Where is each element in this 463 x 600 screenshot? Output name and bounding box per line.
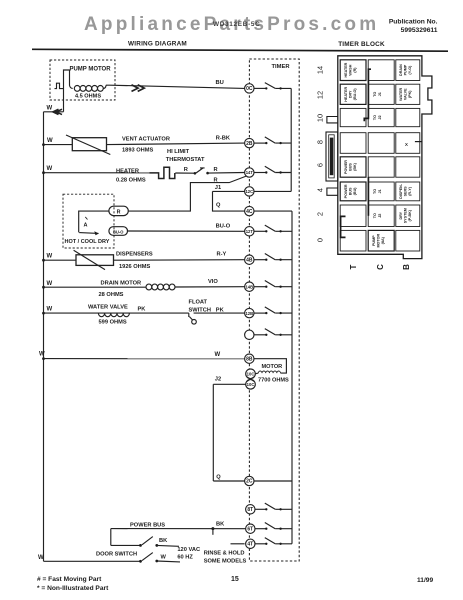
cell 12C to J1 — [368, 84, 394, 104]
cell 14T heater wash — [340, 60, 366, 81]
terminal 4C — [245, 206, 254, 215]
contact R (pill) — [109, 206, 128, 215]
svg-text:W: W — [47, 106, 53, 112]
svg-text:A: A — [84, 223, 88, 229]
switch at 8T — [254, 503, 292, 510]
wire R-BK to 2B — [107, 143, 245, 145]
wire: bus to heater — [44, 172, 150, 174]
svg-text:8: 8 — [316, 140, 325, 144]
svg-text:HEATER: HEATER — [344, 62, 348, 77]
svg-text:4C: 4C — [246, 209, 253, 215]
cell 0B empty — [396, 230, 420, 251]
svg-text:W: W — [47, 254, 53, 260]
wire BU-O to 12T — [128, 230, 245, 232]
svg-text:4T: 4T — [247, 542, 253, 548]
svg-text:4.5 OHMS: 4.5 OHMS — [75, 93, 101, 99]
terminal 0C — [245, 84, 254, 93]
housing tab row 4 — [327, 188, 338, 195]
wire: 8B to timer motor loop — [254, 359, 286, 373]
svg-text:(BU-O): (BU-O) — [353, 88, 357, 101]
wire BU: pump motor to timer 0C — [110, 85, 245, 88]
door switch W right contact + wire — [155, 560, 158, 563]
svg-text:HOT / COOL DRY: HOT / COOL DRY — [65, 239, 110, 245]
svg-text:120 VAC: 120 VAC — [177, 547, 200, 553]
svg-text:W: W — [215, 352, 221, 358]
svg-text:TO: TO — [373, 213, 377, 218]
drain motor coil — [146, 284, 152, 290]
svg-text:BK: BK — [216, 522, 225, 528]
door switch BK blade — [142, 537, 153, 545]
door switch W blade — [142, 553, 153, 561]
wire: power bus drop to door switch — [110, 529, 112, 546]
svg-text:BU-O: BU-O — [216, 223, 231, 229]
wire: W main bus (left vertical) — [43, 112, 45, 562]
svg-text:VENT ACTUATOR: VENT ACTUATOR — [122, 136, 170, 142]
svg-text:HEATER: HEATER — [116, 168, 139, 174]
wire: J1 drop to 4C — [213, 191, 245, 211]
cell 10T empty — [340, 108, 366, 126]
terminal 14B — [245, 282, 254, 291]
svg-text:2C: 2C — [246, 479, 253, 485]
terminal 12B — [245, 308, 254, 317]
junction dot drain row — [42, 286, 45, 289]
wire: BK line to door switch — [111, 544, 141, 546]
terminal 6T — [246, 524, 255, 533]
wire: pump common vertical with top hook — [64, 70, 70, 112]
terminal 4B — [245, 255, 254, 264]
svg-text:W: W — [38, 555, 44, 561]
cell 6C empty — [368, 157, 394, 177]
svg-text:DRAIN MOTOR: DRAIN MOTOR — [101, 280, 142, 286]
svg-text:(R): (R) — [353, 67, 357, 73]
svg-text:DRY: DRY — [399, 211, 403, 219]
svg-text:J1: J1 — [378, 92, 382, 96]
vent actuator diagonal — [66, 135, 110, 155]
cell 2B dry system — [396, 205, 420, 227]
terminal 2B — [245, 138, 254, 147]
wire: bus to dispenser — [44, 259, 77, 261]
svg-text:DISPEN-: DISPEN- — [399, 183, 403, 199]
svg-text:J2: J2 — [215, 376, 221, 382]
cell 2C to J2 — [368, 205, 394, 227]
svg-text:15: 15 — [231, 576, 239, 583]
float switch break tick — [188, 313, 190, 317]
svg-text:2: 2 — [316, 212, 325, 216]
contact BU-O (pill) — [109, 227, 128, 236]
svg-text:HEATER: HEATER — [344, 87, 348, 102]
terminal 4T — [246, 539, 255, 548]
svg-text:MOTOR: MOTOR — [377, 234, 381, 248]
svg-text:PUMP: PUMP — [372, 235, 376, 246]
svg-text:BU: BU — [216, 80, 224, 86]
pump coil exit wire — [103, 85, 110, 88]
cell 10B empty — [396, 108, 420, 126]
svg-text:WIRING DIAGRAM: WIRING DIAGRAM — [128, 41, 187, 48]
svg-text:W: W — [47, 138, 53, 144]
svg-text:VIO: VIO — [208, 279, 218, 285]
svg-text:1926 OHMS: 1926 OHMS — [119, 264, 151, 270]
svg-text:WATER VALVE: WATER VALVE — [88, 304, 128, 310]
cell 0C pump motor — [368, 230, 394, 251]
heater resistor zigzag — [149, 167, 175, 178]
terminal unlabeled — [245, 330, 254, 339]
door switch BK right contact + wire — [155, 544, 158, 547]
hot/cool dry dashed box — [63, 194, 114, 248]
svg-text:TO: TO — [373, 92, 377, 97]
svg-text:J2: J2 — [378, 115, 382, 119]
terminal 14T — [245, 168, 254, 177]
dispenser diagonal — [74, 250, 105, 269]
cell 2T empty — [340, 205, 366, 227]
cell 6T power bus bk — [340, 157, 366, 177]
door switch W contact — [139, 560, 142, 563]
fast moving symbol on bus corner — [53, 109, 62, 114]
stub 8B to housing edge — [415, 141, 422, 143]
terminal 10C upper — [246, 369, 256, 379]
svg-text:0.28 OHMS: 0.28 OHMS — [116, 177, 146, 183]
svg-text:WASH: WASH — [349, 64, 353, 75]
cell 4C to J1 — [368, 182, 394, 201]
svg-text:TO: TO — [373, 189, 377, 194]
thermal protector step (pump motor) — [55, 83, 64, 88]
wire: heater to thermostat — [175, 172, 194, 174]
svg-text:C: C — [376, 264, 385, 270]
cell 14B drain pump — [396, 60, 420, 81]
svg-text:DISPENSERS: DISPENSERS — [116, 251, 153, 257]
svg-text:10C: 10C — [247, 382, 255, 387]
cell 12T heater dry — [340, 84, 366, 104]
svg-text:(Y-G): (Y-G) — [408, 65, 412, 75]
wire: coil to 10C — [255, 372, 258, 375]
wire: thermostat to 14T — [208, 172, 245, 175]
svg-text:4: 4 — [316, 188, 325, 192]
svg-text:12C: 12C — [245, 189, 253, 194]
svg-text:W: W — [47, 166, 53, 172]
wire R-Y to 4B — [114, 259, 245, 262]
cell 14C empty — [368, 60, 394, 81]
pump motor dashed box — [50, 60, 115, 100]
svg-text:POWER: POWER — [344, 160, 348, 174]
jumper bar rows 4-2 (C column) — [367, 177, 369, 216]
wire: bus to vent actuator — [44, 144, 73, 146]
svg-text:Q: Q — [216, 475, 221, 481]
cell 0T empty — [340, 230, 366, 251]
junction dot vent row — [42, 143, 45, 146]
wire: bus to 8B — [44, 358, 245, 360]
svg-text:11/99: 11/99 — [417, 577, 433, 584]
terminal 12T — [245, 227, 254, 236]
wire PK to 12B — [194, 312, 245, 314]
cell 4B dispensers — [396, 182, 420, 201]
pump motor winding coil — [70, 86, 73, 89]
svg-text:VALVE: VALVE — [404, 88, 408, 100]
wire: 2C to right bus — [254, 480, 292, 482]
switch at 4T — [254, 538, 292, 545]
timer dashed enclosure — [249, 59, 299, 561]
wire: lower 10C to J2 — [213, 383, 246, 385]
svg-text:28 OHMS: 28 OHMS — [99, 292, 124, 298]
header rule — [32, 49, 448, 51]
svg-text:SYSTEM: SYSTEM — [404, 208, 408, 223]
wire: 12C to J1 — [213, 190, 245, 192]
dispenser resistor box — [76, 255, 114, 266]
svg-text:14B: 14B — [245, 284, 253, 289]
junction dot water valve row — [42, 312, 45, 315]
svg-text:WD312EB-5C: WD312EB-5C — [213, 21, 261, 28]
junction X between 10C terminals — [247, 377, 254, 382]
wire: bus to drain coil — [44, 286, 147, 288]
terminal 12C — [245, 187, 254, 196]
svg-text:RINSE & HOLD: RINSE & HOLD — [204, 550, 245, 556]
switch at unlabeled terminal — [254, 329, 292, 336]
svg-text:0: 0 — [316, 238, 325, 242]
svg-text:J2: J2 — [378, 214, 382, 218]
timer internal bus 2 — [291, 211, 293, 544]
switch at 12B — [254, 307, 292, 314]
cell 8T empty — [340, 133, 366, 154]
hi-limit thermostat contacts — [194, 172, 197, 175]
terminal 10C lower — [246, 380, 256, 390]
svg-text:PUMP: PUMP — [404, 64, 408, 75]
svg-text:6: 6 — [316, 163, 325, 167]
cell 8B JC mark — [396, 133, 420, 154]
stub below power bus junction — [212, 529, 214, 535]
svg-text:10: 10 — [316, 114, 325, 122]
svg-text:R: R — [214, 177, 218, 183]
svg-text:(R-Y): (R-Y) — [408, 186, 412, 196]
switch at 4B — [254, 254, 292, 261]
svg-text:BU-O: BU-O — [113, 230, 124, 235]
junction dot W row — [42, 357, 45, 360]
svg-text:(8A): (8A) — [381, 236, 385, 244]
svg-text:(PK): (PK) — [408, 90, 412, 98]
svg-text:0C: 0C — [246, 86, 253, 92]
svg-text:# = Fast Moving Part: # = Fast Moving Part — [37, 576, 102, 583]
wire: 14T branch to hot/cool selector R — [128, 176, 247, 211]
svg-text:R-BK: R-BK — [216, 136, 231, 142]
svg-text:PUMP MOTOR: PUMP MOTOR — [69, 67, 111, 73]
svg-text:DOOR SWITCH: DOOR SWITCH — [96, 551, 137, 557]
svg-text:* = Non-Illustrated Part: * = Non-Illustrated Part — [37, 585, 109, 592]
switch at 2B — [254, 137, 291, 144]
svg-text:R: R — [117, 210, 121, 216]
svg-text:PK: PK — [216, 308, 225, 314]
terminal 8T — [246, 505, 255, 514]
svg-text:X: X — [405, 142, 408, 147]
svg-text:5995329611: 5995329611 — [401, 27, 438, 34]
svg-text:W: W — [47, 307, 53, 313]
svg-text:BK: BK — [159, 538, 168, 544]
cell 4T power bus bu — [340, 182, 366, 201]
svg-text:PK: PK — [138, 307, 147, 313]
svg-text:4B: 4B — [246, 257, 253, 263]
wire: J2 to 2C — [213, 480, 244, 482]
cell 10C to J2 — [368, 108, 394, 126]
svg-text:(P-BK): (P-BK) — [408, 209, 412, 221]
svg-text:TIMER: TIMER — [271, 64, 290, 70]
svg-text:7700 OHMS: 7700 OHMS — [258, 378, 289, 384]
svg-text:TIMER BLOCK: TIMER BLOCK — [338, 41, 385, 48]
wire 12C to bus1 — [254, 190, 291, 192]
svg-text:8T: 8T — [247, 507, 253, 513]
svg-text:14T: 14T — [246, 170, 254, 175]
svg-text:POWER: POWER — [344, 184, 348, 198]
svg-text:HI LIMIT: HI LIMIT — [167, 149, 190, 155]
wire: bus to float switch — [44, 312, 189, 314]
cell 12B water valve — [396, 84, 420, 104]
selector blade with arrowhead — [79, 232, 98, 235]
timer internal bus 1 — [290, 88, 292, 191]
switch at 12T — [254, 225, 292, 232]
svg-text:Q: Q — [216, 203, 221, 209]
vent actuator resistor box — [72, 138, 106, 151]
svg-text:DRY: DRY — [349, 90, 353, 98]
svg-text:BUS: BUS — [349, 163, 353, 171]
housing tab row 10 — [327, 117, 338, 123]
selector common wire — [79, 211, 109, 232]
terminal 8B — [245, 354, 254, 363]
svg-text:(BK): (BK) — [353, 162, 357, 171]
wire stub into 4T — [231, 543, 245, 545]
svg-text:MOTOR: MOTOR — [262, 364, 283, 370]
svg-text:DRAIN: DRAIN — [399, 64, 403, 76]
water valve coil (below wire) — [98, 313, 129, 317]
terminal 2C — [245, 476, 254, 485]
svg-text:14: 14 — [316, 66, 325, 74]
svg-text:THERMOSTAT: THERMOSTAT — [166, 157, 205, 163]
svg-text:6T: 6T — [247, 526, 253, 532]
wire: W line to door switch — [44, 560, 141, 562]
svg-text:B: B — [402, 264, 411, 270]
svg-text:599 OHMS: 599 OHMS — [99, 319, 127, 325]
timer motor coil — [258, 371, 280, 373]
svg-text:J1: J1 — [215, 185, 221, 191]
switch at 14T — [254, 166, 291, 173]
svg-text:R: R — [214, 167, 218, 173]
svg-text:SOME MODELS: SOME MODELS — [204, 558, 247, 564]
svg-text:12: 12 — [316, 91, 325, 99]
switch at 6T — [254, 523, 292, 530]
timer block outer housing — [338, 56, 432, 259]
svg-text:8B: 8B — [246, 356, 253, 362]
wire 4C to bus2 — [254, 210, 292, 212]
svg-text:BUS: BUS — [349, 187, 353, 195]
svg-text:Publication No.: Publication No. — [389, 19, 438, 26]
float ball and stem — [192, 320, 197, 325]
edge connector housing rows 8-6 — [326, 132, 338, 181]
wire VIO to 14B — [175, 286, 245, 288]
svg-text:10C: 10C — [247, 372, 255, 377]
cell 6B empty — [396, 157, 420, 177]
svg-text:1893 OHMS: 1893 OHMS — [122, 148, 154, 154]
svg-text:POWER BUS: POWER BUS — [130, 522, 165, 528]
svg-text:TO: TO — [373, 115, 377, 120]
svg-text:W: W — [161, 555, 167, 561]
bracket rows 2-0 (T column) — [341, 216, 346, 237]
svg-text:W: W — [39, 352, 45, 358]
wire: J2 vertical drop — [212, 384, 214, 481]
cell 8C empty — [368, 133, 394, 154]
fast moving symbol on BU wire — [132, 85, 145, 92]
svg-text:R-Y: R-Y — [217, 252, 227, 258]
svg-text:2B: 2B — [246, 141, 253, 147]
svg-text:(BU): (BU) — [353, 187, 357, 196]
svg-text:60 HZ: 60 HZ — [177, 555, 193, 561]
svg-text:R: R — [184, 167, 188, 173]
door switch BK contact — [139, 544, 142, 547]
svg-text:FLOAT: FLOAT — [189, 299, 208, 305]
junction dot heater row — [42, 171, 45, 174]
switch at 14B — [254, 281, 292, 288]
svg-text:12T: 12T — [246, 229, 254, 234]
svg-text:T: T — [349, 264, 358, 269]
svg-text:J1: J1 — [378, 189, 382, 193]
wire: power bus to 6T — [111, 528, 246, 530]
svg-text:W: W — [47, 281, 53, 287]
junction dot dispenser row — [42, 259, 45, 262]
svg-text:SERS: SERS — [404, 186, 408, 197]
jumper bar rows 14-10 (C column) — [364, 69, 371, 121]
svg-text:12B: 12B — [245, 311, 253, 316]
svg-text:WATER: WATER — [399, 87, 403, 100]
switch at 0C — [254, 83, 291, 90]
junction dot power bus — [211, 527, 214, 530]
wire: corner from pump drop to W bus — [44, 111, 64, 113]
